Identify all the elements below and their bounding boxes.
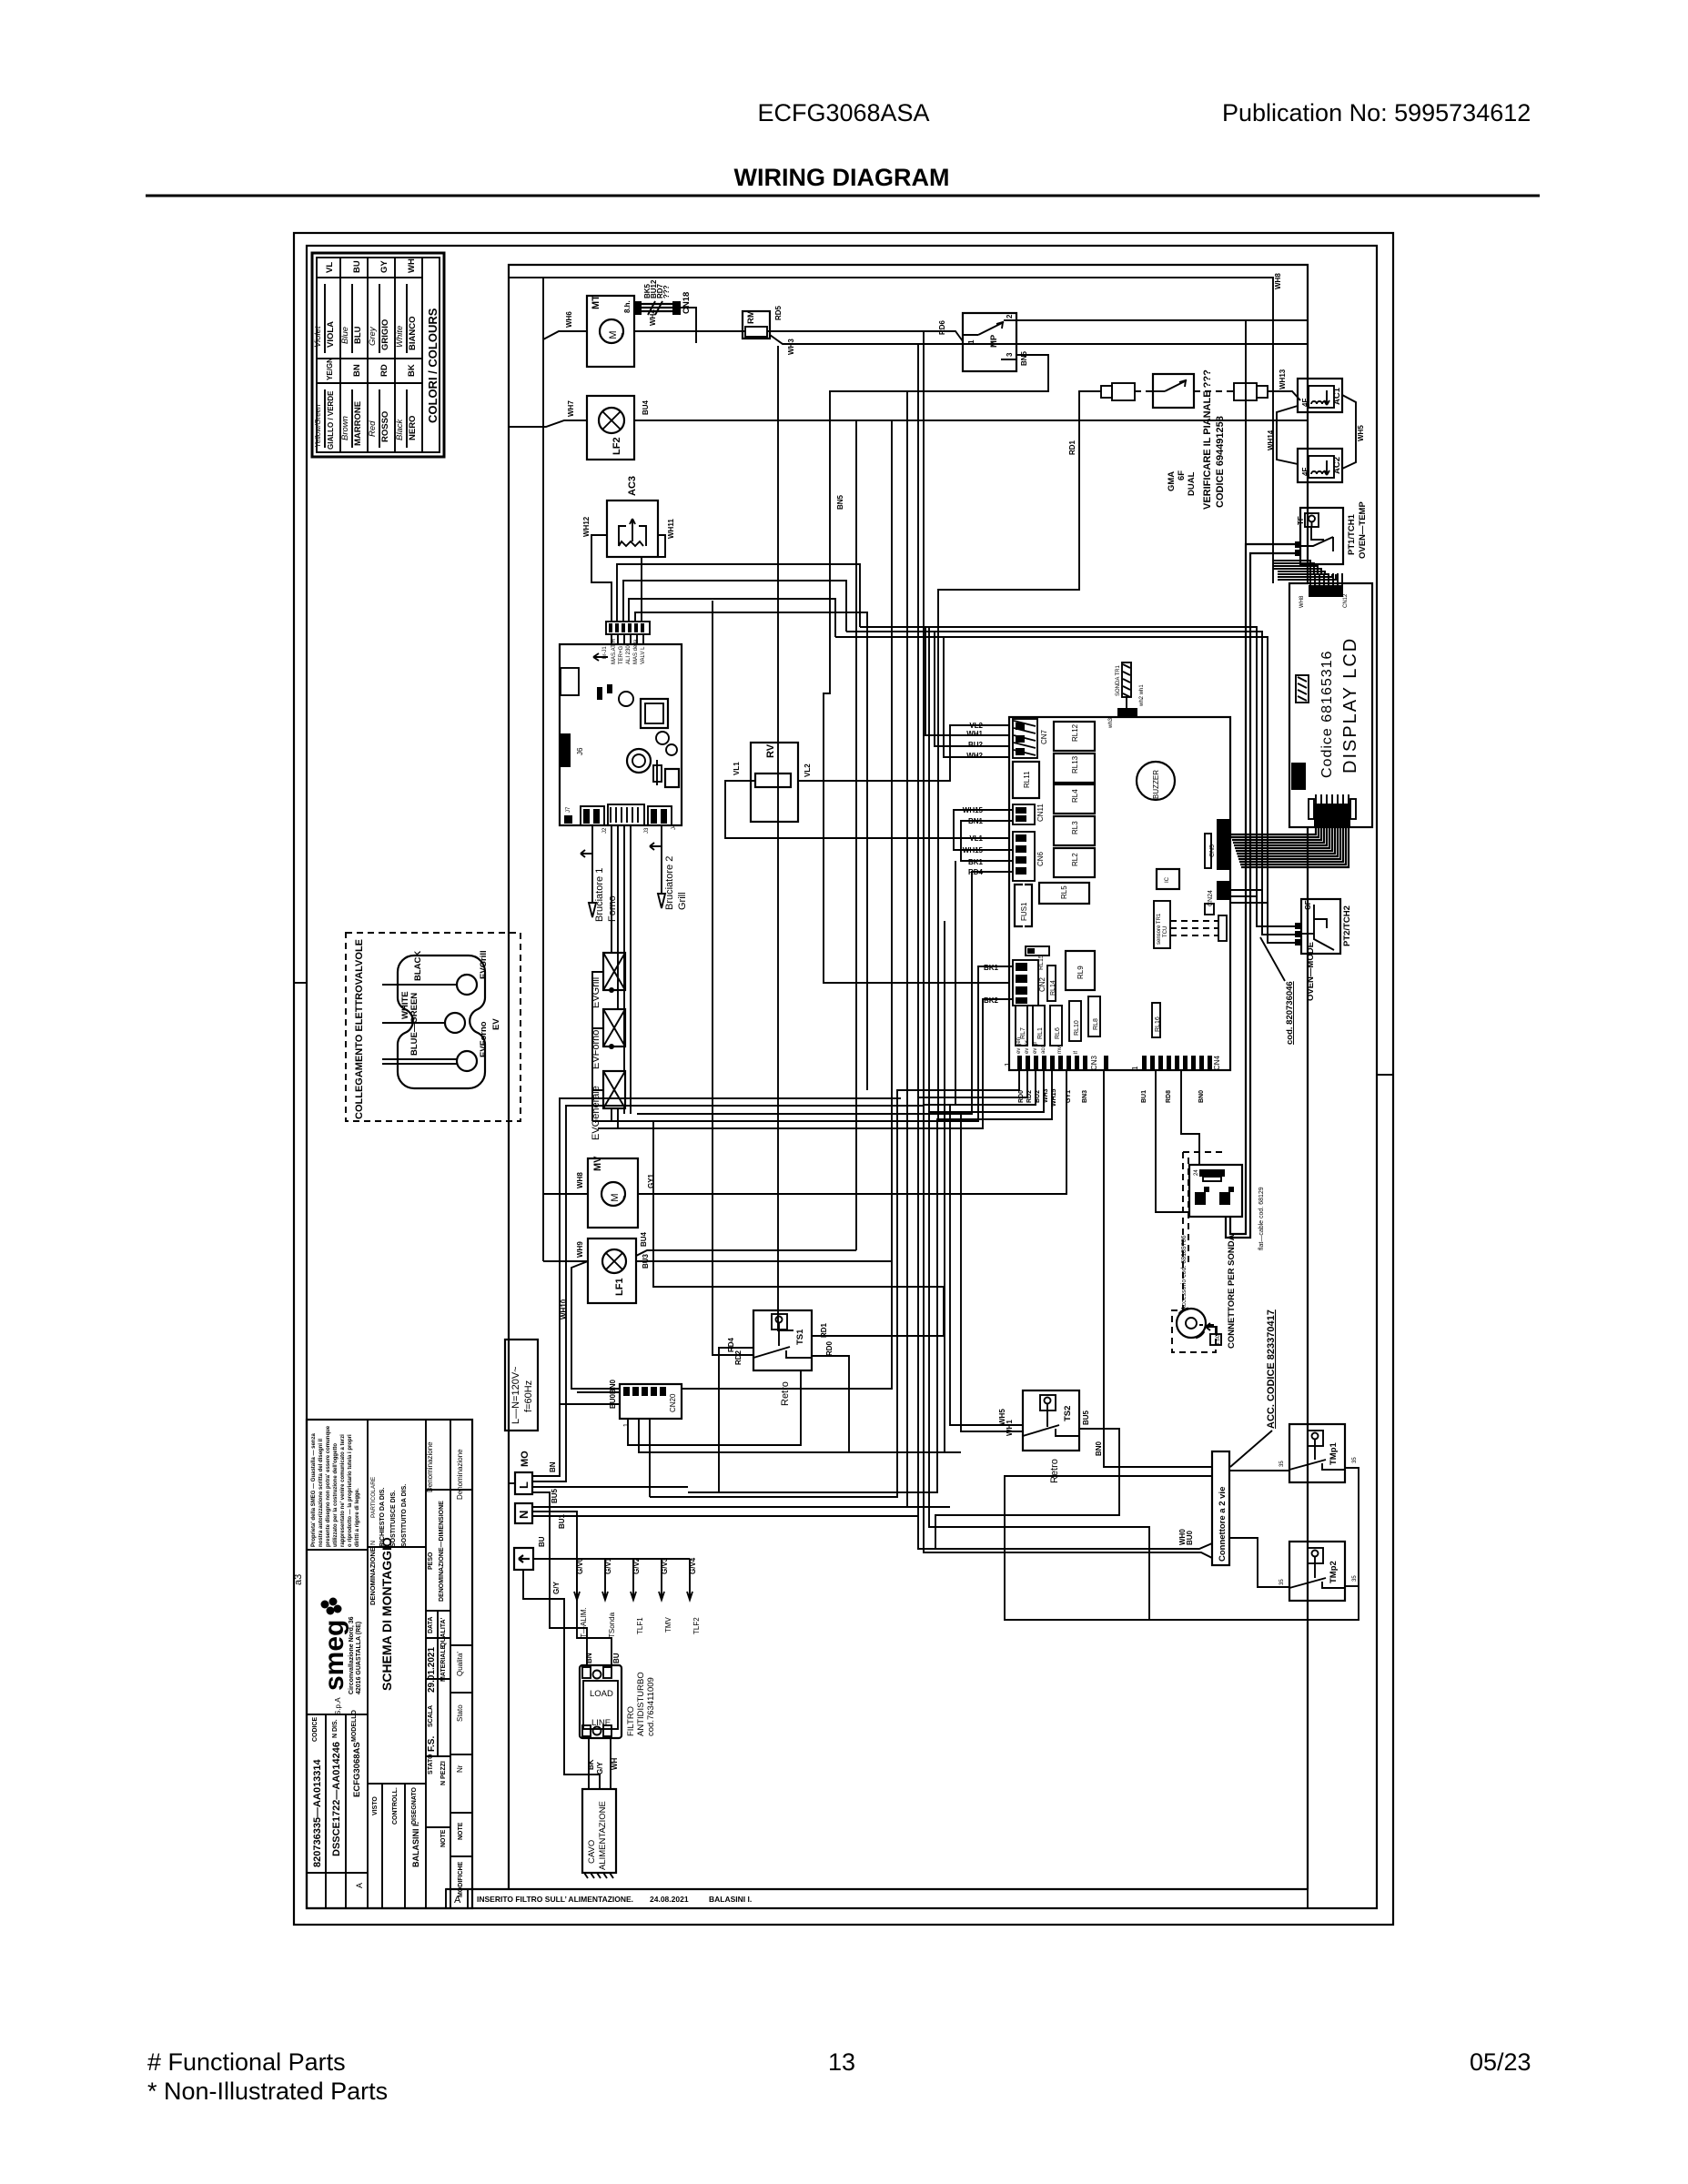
svg-text:BLU: BLU (353, 326, 363, 344)
svg-text:TCU: TCU (1163, 926, 1168, 937)
svg-text:CN18: CN18 (682, 292, 692, 314)
svg-text:Bruciatore 1: Bruciatore 1 (594, 868, 605, 922)
connector CN3 pins (1004, 1037, 1098, 1070)
wire lamp return riser (855, 420, 857, 1250)
svg-text:WH5: WH5 (1357, 425, 1365, 441)
svg-text:MODELLO: MODELLO (351, 1709, 358, 1742)
wire WH14 AC loop left (1267, 406, 1298, 464)
svg-text:G/Y: G/Y (596, 1762, 604, 1774)
valve EVGrill (591, 953, 625, 1008)
header model number (757, 99, 929, 126)
wire BU1 CN4 to probe (1156, 1070, 1189, 1212)
fold mark left (294, 982, 307, 984)
color code GY (368, 260, 390, 353)
svg-text:WH15: WH15 (963, 806, 984, 814)
svg-text:EVGrill: EVGrill (479, 950, 489, 979)
svg-text:NOTE: NOTE (458, 1822, 464, 1840)
svg-text:05/23: 05/23 (1470, 2048, 1531, 2076)
filter FILTRO ANTIDISTURBO (580, 1653, 656, 1738)
valve EVForno (591, 1009, 625, 1069)
relay RL16 strip (1152, 1003, 1161, 1037)
svg-text:COLLEGAMENTO ELETTROVALVOLE: COLLEGAMENTO ELETTROVALVOLE (354, 939, 365, 1119)
svg-text:BU0: BU0 (609, 1393, 617, 1409)
svg-text:CN6: CN6 (1036, 851, 1045, 866)
svg-text:CN2: CN2 (1038, 976, 1046, 992)
svg-text:RD: RD (379, 364, 389, 377)
wire TS1 left 1 (719, 1348, 753, 1492)
svg-text:CN11: CN11 (1036, 804, 1045, 822)
title block denominazione (369, 1537, 394, 1691)
svg-text:# Functional Parts: # Functional Parts (147, 2048, 346, 2076)
burner electrode Bruciatore 1 Forno (581, 825, 618, 922)
wire GV row feed (533, 1558, 690, 1560)
svg-text:J3: J3 (644, 827, 650, 834)
svg-text:RL12: RL12 (1071, 723, 1079, 742)
accessory code label (1266, 1309, 1277, 1429)
svg-text:BN1: BN1 (968, 817, 984, 825)
fuse FUS1 (1015, 885, 1032, 926)
svg-text:Denominazione: Denominazione (456, 1449, 464, 1500)
svg-text:TSC: TSC (1216, 1333, 1221, 1345)
svg-text:BU2: BU2 (968, 741, 984, 749)
svg-text:1: 1 (1131, 1066, 1139, 1070)
wire CN7 pin labels (966, 730, 983, 760)
wire CN20 bottom 2 (639, 1419, 961, 1452)
svg-text:RD4: RD4 (727, 1337, 735, 1352)
svg-text:cod. 820736046: cod. 820736046 (1285, 981, 1295, 1045)
svg-text:DATA: DATA (428, 1617, 434, 1633)
svg-text:6F: 6F (1177, 470, 1187, 480)
wire filter to cavo (589, 1738, 611, 1789)
title block approval row (372, 1786, 420, 1867)
wire GMA to AC1 (1268, 369, 1300, 400)
connector CN18 (633, 279, 692, 315)
svg-text:BU2: BU2 (1035, 1090, 1041, 1103)
svg-text:ALIMENTAZIONE: ALIMENTAZIONE (598, 1801, 608, 1870)
svg-text:AC1: AC1 (1332, 387, 1342, 405)
relay RL5 (1039, 883, 1089, 904)
svg-text:VALV L: VALV L (641, 646, 646, 664)
wire CN20 left feeds (560, 1392, 620, 1404)
wire RD8 CN4 to probe (1181, 1070, 1199, 1165)
bottom connectors (581, 806, 604, 825)
svg-text:~: ~ (618, 332, 626, 337)
wire top run to display WH8 (509, 273, 1282, 583)
svg-text:BU1: BU1 (558, 1513, 566, 1529)
svg-text:STATO: STATO (428, 1754, 434, 1774)
relay RL7 (1016, 1006, 1027, 1046)
svg-text:TSonda: TSonda (608, 1612, 616, 1638)
svg-text:ACC. CODICE 823370417: ACC. CODICE 823370417 (1266, 1309, 1277, 1429)
wire corridor vertical x1050 (955, 861, 956, 1105)
arrow mark top-left (593, 653, 608, 661)
svg-text:Qualita': Qualita' (456, 1652, 464, 1676)
heater AC1 (1298, 379, 1342, 412)
svg-text:DUAL: DUAL (1187, 471, 1197, 496)
svg-text:ECFG3068AS: ECFG3068AS (352, 1742, 362, 1797)
svg-text:OVEN—MODE: OVEN—MODE (1306, 942, 1316, 1001)
svg-text:diritti a rigore di legge.: diritti a rigore di legge. (355, 1488, 360, 1547)
svg-text:BK: BK (407, 364, 417, 377)
svg-text:ANTIDISTURBO: ANTIDISTURBO (636, 1672, 646, 1736)
svg-text:QUALITA': QUALITA' (440, 1617, 447, 1647)
svg-text:Proprieta' della SMEG — Guasta: Proprieta' della SMEG — Guastalla — senz… (311, 1433, 317, 1547)
svg-text:BN: BN (549, 1461, 557, 1472)
wire CN3 drop 4 (929, 1070, 1149, 1620)
wire corridor vertical x980 (682, 420, 892, 1389)
svg-text:Grey: Grey (368, 326, 378, 346)
svg-text:AC2: AC2 (1332, 457, 1342, 474)
wire corridor vertical x1009 (917, 344, 919, 1097)
svg-text:Bruciatore 2: Bruciatore 2 (664, 856, 675, 910)
svg-text:VERIFICARE IL PIANALE ???: VERIFICARE IL PIANALE ??? (1202, 369, 1213, 510)
relay RL11 (1013, 762, 1039, 798)
svg-text:CONTROLL.: CONTROLL. (392, 1787, 399, 1825)
svg-text:4F: 4F (1301, 468, 1309, 476)
thermal switch TMp1 (1279, 1424, 1358, 1482)
relay RL2 (1054, 848, 1095, 877)
svg-text:CN20: CN20 (669, 1393, 677, 1412)
note VERIFICARE IL PIANALE (1202, 369, 1226, 510)
svg-text:BALASINI I.: BALASINI I. (411, 1822, 420, 1867)
svg-text:OVEN—TEMP: OVEN—TEMP (1358, 501, 1368, 559)
footer date (1470, 2048, 1531, 2076)
zone label a3 (293, 1574, 304, 1585)
footer functional parts (147, 2048, 346, 2076)
svg-text:MP: MP (989, 334, 999, 348)
ic component (1157, 869, 1179, 889)
svg-text:BU: BU (538, 1536, 546, 1547)
svg-text:WH1: WH1 (1006, 1420, 1014, 1436)
mains label box L-N 120V (505, 1340, 538, 1431)
svg-text:BIANCO: BIANCO (408, 317, 418, 350)
svg-text:RD4: RD4 (968, 868, 984, 876)
svg-text:VL1: VL1 (969, 834, 983, 843)
wire connettore bottom feed labels (1178, 1529, 1212, 1558)
svg-text:acc: acc (1041, 1046, 1046, 1054)
wire BU4 LF2 run (634, 399, 1308, 420)
svg-text:RL3: RL3 (1071, 821, 1079, 834)
leader to connettore (1230, 1431, 1272, 1467)
svg-text:BK2: BK2 (984, 996, 999, 1005)
switch PT2/TCH2 OVEN-MODE (1260, 899, 1352, 1045)
wire CN18 tail (681, 308, 696, 343)
svg-text:MO: MO (520, 1451, 531, 1467)
wire corridor vertical x1038 (944, 921, 945, 1452)
svg-text:J4: J4 (672, 824, 677, 830)
svg-text:WH: WH (407, 258, 417, 273)
wire RD1 riser (778, 346, 793, 1330)
top connector J1 (606, 622, 650, 634)
svg-text:Brown: Brown (340, 416, 350, 440)
svg-text:BK1: BK1 (984, 964, 999, 972)
svg-text:RL6: RL6 (1055, 1027, 1061, 1039)
title block data/scala cells (426, 1441, 447, 1847)
svg-text:COLORI / COLOURS: COLORI / COLOURS (426, 308, 440, 423)
svg-text:~: ~ (620, 1195, 628, 1199)
wire harness run 3 (835, 637, 1268, 943)
svg-text:Retro: Retro (1049, 1459, 1060, 1483)
svg-text:1: 1 (1004, 1062, 1012, 1067)
page title (734, 164, 950, 191)
svg-text:* Non-Illustrated Parts: * Non-Illustrated Parts (147, 2078, 388, 2105)
svg-text:WH3: WH3 (1043, 1088, 1049, 1103)
relay RL8 (1088, 996, 1100, 1036)
wire CN20 bottom 1 (628, 1370, 801, 1445)
footer page number (828, 2048, 855, 2076)
connector CN4 pins (1104, 1055, 1221, 1070)
svg-text:Retro: Retro (780, 1381, 791, 1406)
svg-text:GMA: GMA (1167, 471, 1177, 491)
svg-text:AC3: AC3 (627, 476, 638, 496)
svg-text:PT2/TCH2: PT2/TCH2 (1342, 905, 1352, 946)
wire PT1 pin feeds (1226, 320, 1295, 1238)
svg-text:f=60Hz: f=60Hz (523, 1380, 534, 1412)
footer non-illustrated parts (147, 2078, 388, 2105)
svg-text:BU: BU (612, 1653, 621, 1663)
svg-text:J6: J6 (576, 747, 584, 755)
display ribbon harness (1230, 827, 1349, 867)
svg-text:WH13: WH13 (1279, 369, 1287, 389)
wire CN20 bottom 3 (649, 1419, 651, 1497)
svg-text:VL: VL (325, 262, 335, 273)
wire CN3 pin labels (1018, 1088, 1205, 1107)
svg-text:TMV: TMV (664, 1616, 672, 1633)
svg-text:MAS della: MAS della (633, 639, 639, 664)
svg-text:CN3: CN3 (1090, 1055, 1098, 1070)
svg-text:WH8: WH8 (1299, 595, 1305, 608)
wire MP pin2 to PT1 (1016, 319, 1308, 321)
wire CN3 drop 5 (688, 1070, 1052, 1492)
wire N BU1 (532, 1513, 918, 1529)
svg-text:WH14: WH14 (1267, 430, 1275, 450)
wire LF1 stubs (636, 1250, 892, 1261)
power cord CAVO ALIMENTAZIONE (582, 1757, 619, 1878)
connector block Connettore a 2 vie (1212, 1451, 1229, 1565)
wire GY1 MV to CN20 (638, 1070, 1066, 1194)
svg-text:820736335—AA013314: 820736335—AA013314 (312, 1758, 323, 1867)
svg-text:SCALA: SCALA (428, 1705, 434, 1727)
relay RL10 (1069, 1001, 1081, 1041)
connector CN24 (1208, 881, 1230, 906)
svg-text:SONDA TR1: SONDA TR1 (1116, 664, 1121, 696)
svg-text:wh2 wh1: wh2 wh1 (1139, 684, 1145, 707)
wire CN3 drop 1 (650, 1070, 1019, 1497)
svg-text:presente disegno non potra' es: presente disegno non potra' essere comun… (326, 1425, 331, 1547)
wire EV vertical 3 (623, 825, 625, 1114)
color code BK (395, 364, 418, 448)
svg-text:35: 35 (1352, 1575, 1358, 1582)
resistor RV (733, 743, 812, 822)
wire harness run 1 (860, 627, 1257, 926)
color code YE/GN (314, 358, 335, 450)
svg-text:BU0: BU0 (1186, 1530, 1194, 1545)
svg-text:BUZZER: BUZZER (1152, 770, 1160, 799)
wire WH8 MV (543, 1193, 588, 1195)
thermal switch TMp2 (1279, 1542, 1358, 1601)
wire corridor vertical x1015 (923, 331, 925, 1105)
svg-text:VIOLA: VIOLA (326, 321, 336, 348)
svg-text:35: 35 (1352, 1457, 1358, 1463)
wire TS2 out (935, 1429, 1119, 1549)
svg-text:MT: MT (591, 295, 601, 309)
outer frame (294, 233, 1393, 1925)
fuse link GMA 6F DUAL (1101, 374, 1268, 496)
svg-text:CODICE 694491258: CODICE 694491258 (1215, 416, 1226, 508)
relay RL14 (1047, 966, 1056, 1001)
color code BN (340, 364, 363, 448)
terminal row G/V0-G/V4 (574, 1557, 701, 1638)
svg-text:TF: TF (1297, 516, 1305, 525)
svg-text:24: 24 (1194, 1169, 1199, 1176)
svg-text:VL2: VL2 (969, 722, 983, 730)
title block right column (456, 1449, 464, 1897)
svg-text:PT1/TCH1: PT1/TCH1 (1347, 513, 1357, 555)
svg-text:2: 2 (1006, 314, 1014, 318)
wire PCB1 h4 (635, 612, 867, 1090)
svg-text:BN3: BN3 (1082, 1090, 1088, 1103)
svg-text:SCHEMA DI MONTAGGIO: SCHEMA DI MONTAGGIO (379, 1537, 394, 1691)
svg-text:35: 35 (1279, 1461, 1285, 1467)
svg-text:DSSCE1722—AA014246: DSSCE1722—AA014246 (331, 1742, 342, 1856)
wire AC3 return riser (713, 601, 753, 1355)
wire RD5 RM to MP (767, 331, 963, 341)
title block N column small headers (370, 1476, 408, 1547)
svg-text:RD0: RD0 (1018, 1090, 1025, 1103)
svg-text:WH: WH (611, 1757, 619, 1770)
svg-text:WH2: WH2 (966, 752, 983, 760)
svg-text:CN7: CN7 (1040, 729, 1048, 744)
svg-text:CONNETTORE PER SONDA: CONNETTORE PER SONDA (1227, 1234, 1237, 1349)
svg-text:RL8: RL8 (1093, 1018, 1099, 1030)
svg-text:42016 GUASTALLA (RE): 42016 GUASTALLA (RE) (356, 1622, 362, 1694)
wire WH11 AC3 right (642, 535, 665, 622)
svg-text:Forno: Forno (607, 895, 618, 922)
svg-text:BLACK: BLACK (413, 951, 423, 981)
svg-text:FILTRO: FILTRO (626, 1706, 636, 1736)
svg-text:J7: J7 (566, 806, 571, 813)
buzzer (1137, 762, 1175, 800)
svg-text:TLF1: TLF1 (636, 1617, 644, 1634)
svg-text:flat—cable cod. 68129: flat—cable cod. 68129 (1258, 1187, 1265, 1250)
svg-text:RL13: RL13 (1071, 755, 1079, 773)
thermostat TS1 (727, 1310, 834, 1406)
svg-text:EV: EV (491, 1018, 501, 1030)
svg-text:o riprodotto — la proprietario: o riprodotto — la proprietario tutela i … (348, 1434, 353, 1547)
wire corridor vertical x1021 (928, 627, 930, 1112)
wire CN3 drop 2 (918, 1070, 1180, 1549)
svg-text:lf: lf (1074, 1051, 1079, 1054)
svg-text:RD2: RD2 (734, 1350, 743, 1365)
svg-text:NOTE: NOTE (440, 1829, 447, 1847)
svg-text:RL2: RL2 (1071, 853, 1079, 866)
svg-text:35: 35 (1279, 1579, 1285, 1585)
svg-text:BN: BN (352, 364, 362, 377)
inner frame (307, 246, 1377, 1908)
wire CN11-CN6 loop 2 (961, 817, 1013, 866)
connector CN7 (1013, 719, 1048, 758)
svg-text:GIALLO / VERDE: GIALLO / VERDE (327, 390, 335, 450)
header publication number (1222, 99, 1531, 126)
svg-text:CN4: CN4 (1213, 1055, 1221, 1070)
color table header COLORI/COLOURS (426, 308, 440, 423)
svg-text:wh3: wh3 (1108, 717, 1114, 729)
svg-text:A: A (355, 1883, 364, 1888)
svg-text:WH7: WH7 (567, 400, 575, 417)
svg-text:NERO: NERO (408, 416, 418, 440)
wire WH12 AC3 left (591, 535, 612, 622)
relay RL3 (1054, 816, 1095, 845)
relay RL6 (1050, 1006, 1062, 1046)
svg-text:RD1: RD1 (1068, 440, 1076, 455)
svg-text:BALASINI I.: BALASINI I. (709, 1895, 752, 1904)
terminal earth arrow (514, 1548, 533, 1570)
probe TSC (1172, 1309, 1221, 1352)
svg-text:CODICE: CODICE (312, 1716, 318, 1742)
relay RL15 strip (1026, 946, 1049, 970)
svg-text:CN12: CN12 (1343, 593, 1349, 608)
connector CN11 (1013, 804, 1045, 824)
terminal MO L (515, 1451, 532, 1494)
svg-text:BN5: BN5 (1020, 350, 1028, 366)
svg-text:LF2: LF2 (612, 437, 622, 455)
wire bus to CN20 (571, 1261, 620, 1389)
svg-text:WH15: WH15 (1051, 1088, 1057, 1107)
connector CN6 (1013, 832, 1045, 881)
svg-text:Publication No: 5995734612: Publication No: 5995734612 (1222, 99, 1531, 126)
svg-text:Codice 68165316: Codice 68165316 (1319, 651, 1335, 778)
svg-text:VL2: VL2 (804, 763, 812, 777)
relay RL13 (1054, 753, 1095, 783)
svg-text:BU: BU (352, 260, 362, 273)
svg-text:BN0: BN0 (1198, 1090, 1205, 1103)
svg-text:RM: RM (746, 310, 756, 324)
motor MT (587, 295, 634, 367)
svg-text:F.S.: F.S. (427, 1736, 437, 1752)
wire RD4 CN6 feed (637, 868, 1013, 1114)
svg-text:N: N (517, 1511, 531, 1519)
wire EV left bus (592, 972, 614, 1121)
wire WH3 run (770, 335, 1308, 344)
sensor TCU (1154, 901, 1227, 948)
fold mark right (1377, 1074, 1393, 1076)
svg-text:BN0: BN0 (1095, 1441, 1103, 1456)
wire TS1 RD1 (653, 1121, 944, 1336)
schematic sheet border (446, 265, 1308, 1889)
svg-text:Circonvallazione Nord, 36: Circonvallazione Nord, 36 (349, 1616, 355, 1694)
svg-text:RD5: RD5 (774, 305, 783, 320)
svg-text:MATERIALE: MATERIALE (440, 1644, 447, 1682)
title block frame (307, 1420, 472, 1908)
wire L bundle 3 (532, 1486, 688, 1488)
wire PCB1 h3 (629, 599, 835, 637)
svg-text:TMp2: TMp2 (1329, 1561, 1339, 1583)
svg-text:a3: a3 (293, 1574, 304, 1585)
svg-text:BN5: BN5 (836, 494, 844, 510)
terminal N (515, 1503, 532, 1523)
svg-text:Stato: Stato (456, 1704, 464, 1722)
wire VL2 RV to CN7 (798, 722, 1009, 781)
svg-text:L—N=120V~: L—N=120V~ (510, 1366, 521, 1424)
wire CN11-CN6 loop 1 (954, 806, 1013, 854)
svg-text:Grill: Grill (677, 892, 688, 910)
svg-text:CN5: CN5 (1209, 844, 1216, 857)
wire N BU5 (532, 1488, 950, 1507)
wire BN0 to connettore (1095, 1070, 1212, 1467)
svg-text:BLUE—GREEN: BLUE—GREEN (409, 993, 419, 1056)
wire PCB1 h1 (617, 564, 860, 627)
svg-text:utilizzato per la costruzione: utilizzato per la costruzione dell'ogget… (333, 1443, 339, 1547)
